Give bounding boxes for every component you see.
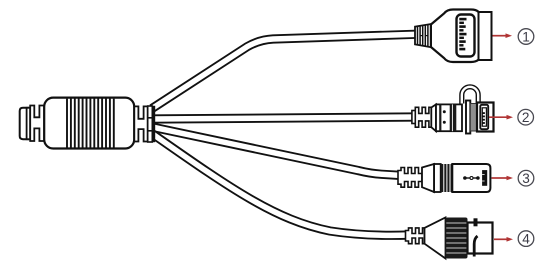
cable gland left collar (H shape)	[30, 106, 44, 142]
connector 2 screws (dots)	[443, 110, 446, 113]
connector 4 bayonet slot	[474, 236, 477, 257]
cable gland rear rim	[27, 108, 31, 139]
connector 4 strain relief	[406, 228, 425, 244]
connector 2 body cylinder	[436, 104, 462, 131]
connector 4 knurl (dark)	[446, 218, 468, 259]
cable gland main ribbed body	[44, 98, 134, 149]
wire to connector 4	[152, 134, 410, 236]
svg-text:3: 3	[522, 171, 530, 186]
connector 3 knurl (dark)	[441, 164, 453, 192]
label badge 2	[518, 109, 534, 125]
connector 2 cone	[431, 104, 436, 131]
connector 2 lanyard loop	[462, 87, 478, 104]
svg-text:1: 1	[522, 29, 530, 44]
connector 1 (USB) body	[431, 10, 481, 63]
connector 2 strain relief	[412, 111, 415, 124]
cable gland end cap (black)	[152, 106, 155, 142]
cable gland rear cap	[20, 108, 30, 139]
arrow to label 4	[494, 237, 513, 242]
arrow to label 3	[492, 176, 514, 181]
connector 4 bayonet pin	[474, 218, 478, 226]
connector 3 label bar	[482, 170, 487, 186]
svg-text:4: 4	[522, 232, 530, 247]
label badge 3	[518, 170, 534, 186]
connector 3 collar	[434, 164, 441, 192]
arrow to label 2	[489, 115, 513, 120]
connector 2 flange plate	[466, 101, 470, 134]
arrow to label 1	[493, 33, 513, 38]
connector 3 strain relief	[398, 168, 422, 188]
connector 2 RJ45 jack	[480, 105, 488, 129]
connector 2 gray plate	[470, 104, 477, 132]
connector 3 (DC power) body	[452, 164, 490, 192]
label badge 4	[518, 231, 534, 247]
connector 4 (BNC) body	[468, 223, 493, 254]
connector 2 socket housing	[477, 103, 494, 132]
connector 4 cone	[425, 218, 446, 259]
cable gland end collar cells	[148, 106, 153, 142]
wire to connector 1	[152, 34, 418, 108]
wire to connector 3	[152, 127, 402, 176]
connector 3 cone	[422, 164, 434, 192]
wire to connector 2	[152, 117, 416, 119]
cable gland right collar (H shape)	[134, 106, 147, 141]
connector 1 strain relief	[415, 24, 431, 47]
connector 2 body dark stripes	[439, 104, 441, 131]
svg-text:2: 2	[522, 110, 530, 125]
cable gland ribs	[67, 98, 114, 149]
connector 1 end plate	[479, 12, 492, 60]
connector 1 contact pins	[459, 18, 466, 51]
label badge 1	[518, 29, 534, 45]
connector 3 polarity icon	[463, 176, 480, 180]
connector 1 contact window	[457, 15, 475, 57]
